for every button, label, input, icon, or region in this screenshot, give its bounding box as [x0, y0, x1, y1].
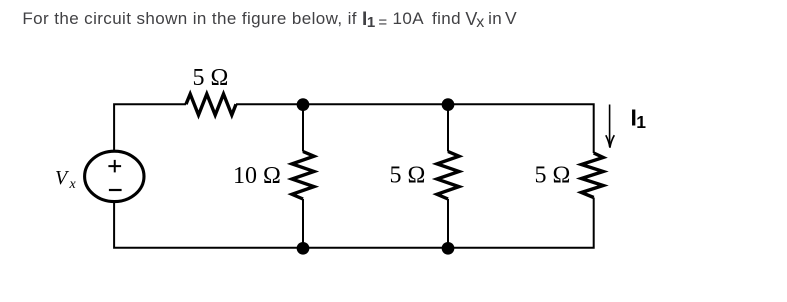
svg-text:5 Ω: 5 Ω: [193, 65, 229, 91]
resistor R3 5ohm vertical zigzag: [437, 152, 459, 200]
wire bottom and right/left verticals: [114, 198, 594, 248]
minus sign inside source: [109, 189, 122, 191]
voltage source Vx circle: [85, 151, 144, 201]
svg-text:5 Ω: 5 Ω: [535, 163, 571, 189]
wire branch node A top: [302, 104, 304, 151]
current arrow I1 line: [609, 105, 611, 147]
wire branch node A bottom: [302, 199, 304, 248]
svg-text:10 Ω: 10 Ω: [233, 163, 281, 189]
svg-text:1: 1: [636, 112, 646, 132]
wire branch node B top: [447, 104, 449, 151]
svg-text:x: x: [69, 177, 77, 192]
wire top-left from source to resistor R1: [114, 104, 186, 151]
wire branch node B bottom: [447, 199, 449, 248]
current arrow I1 head: [606, 135, 615, 148]
node dot top A: [297, 98, 310, 111]
resistor R2 10ohm vertical zigzag: [292, 152, 314, 200]
resistor R1 5ohm horizontal zigzag: [186, 94, 236, 115]
node dot bottom A: [297, 242, 310, 255]
plus sign inside source: [108, 160, 121, 173]
node dot bottom B: [442, 242, 455, 255]
svg-text:5 Ω: 5 Ω: [390, 163, 426, 189]
svg-text:V: V: [55, 167, 70, 189]
node dot top B: [442, 98, 455, 111]
problem statement text: [22, 9, 517, 29]
resistor R4 5ohm vertical zigzag: [581, 153, 603, 198]
wire top from R1 to top-right corner: [236, 104, 594, 153]
